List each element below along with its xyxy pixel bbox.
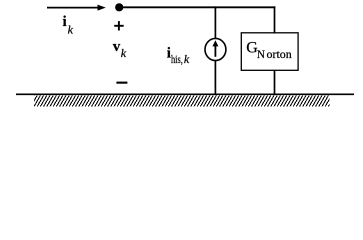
ground plane line: [16, 93, 354, 95]
wire: top horizontal node k: [119, 6, 275, 8]
wire: current source bottom lead: [214, 61, 216, 95]
svg-text:ik: ik: [63, 14, 74, 36]
svg-text:GNorton: GNorton: [246, 40, 292, 62]
wire: current source top lead: [214, 6, 216, 38]
wire: G_Norton bottom lead: [274, 70, 276, 95]
node k junction dot: [115, 3, 123, 11]
wire: input current arrow shaft: [47, 7, 99, 9]
minus polarity mark: [116, 82, 127, 84]
svg-text:ihis,k: ihis,k: [167, 45, 190, 66]
plus polarity mark: [114, 21, 124, 30]
current source arrow: [212, 40, 218, 57]
ground hatching: [28, 95, 335, 106]
input current arrowhead: [98, 5, 106, 11]
conductance G_Norton box: [241, 33, 298, 71]
wire: G_Norton top lead: [274, 6, 276, 33]
current source I_his circle: [205, 38, 226, 60]
svg-text:vk: vk: [113, 39, 127, 60]
